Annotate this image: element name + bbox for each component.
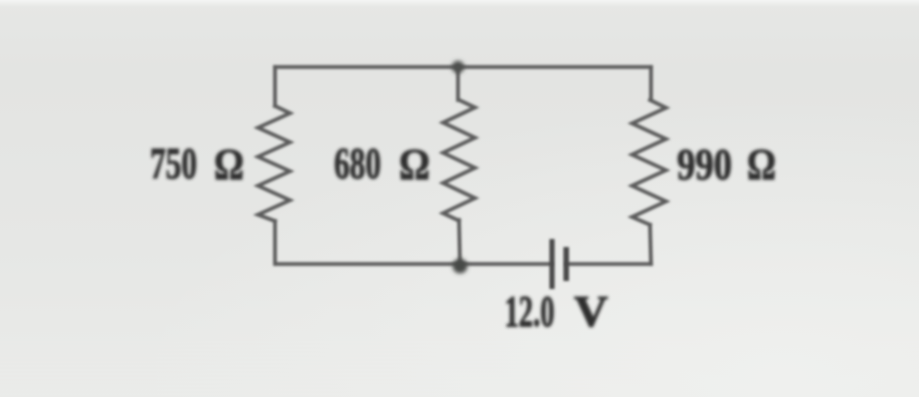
wire: left branch bottom lead bbox=[273, 221, 277, 264]
svg-text:680: 680 bbox=[334, 139, 381, 188]
svg-text:Ω: Ω bbox=[747, 140, 776, 189]
svg-text:Ω: Ω bbox=[214, 140, 244, 189]
svg-text:990: 990 bbox=[677, 140, 732, 189]
wire: top rail bbox=[275, 65, 651, 69]
wire: left branch top lead bbox=[273, 67, 277, 106]
svg-text:V: V bbox=[574, 287, 608, 336]
wire: middle branch bottom lead bbox=[459, 220, 460, 264]
node: top junction dot bbox=[452, 61, 464, 73]
resistor R2 680 ohm zigzag bbox=[443, 100, 475, 221]
resistor R1 750 ohm zigzag bbox=[258, 106, 290, 221]
svg-text:12.0: 12.0 bbox=[505, 287, 555, 336]
wire: right branch top lead bbox=[649, 67, 653, 100]
wire: bottom rail right segment bbox=[567, 262, 651, 266]
battery V1 short plate (right, -) bbox=[563, 247, 569, 281]
battery V1 long plate (left, +) bbox=[549, 239, 554, 289]
node: bottom junction dot bbox=[453, 259, 468, 274]
wire: bottom rail left segment bbox=[276, 262, 551, 266]
resistor R3 990 ohm zigzag bbox=[632, 100, 666, 225]
faint scanline texture bbox=[0, 342, 919, 394]
wire: right branch bottom lead bbox=[650, 225, 651, 264]
wire: middle branch top lead bbox=[456, 67, 460, 100]
svg-text:750: 750 bbox=[150, 139, 197, 188]
svg-text:Ω: Ω bbox=[399, 140, 430, 189]
